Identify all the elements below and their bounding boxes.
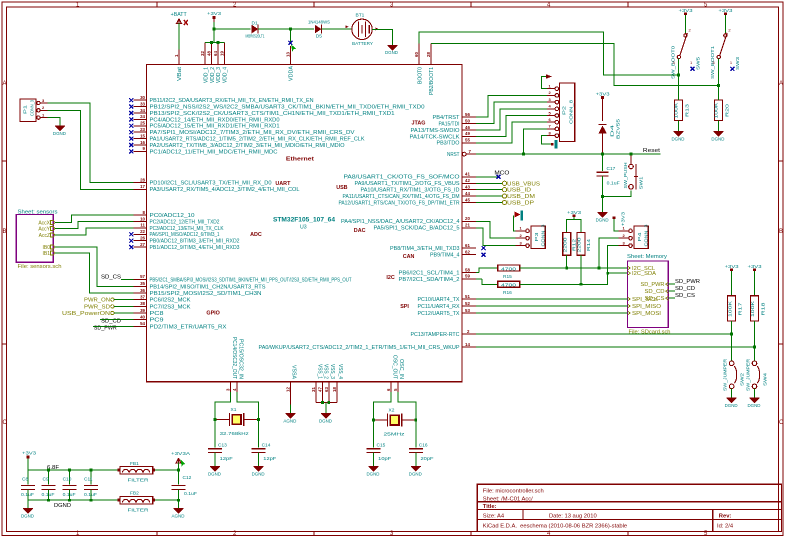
- svg-text:SD_PWR: SD_PWR: [641, 282, 665, 288]
- svg-text:PC1/ADC12_11/ETH_MII_MDC/ETH_R: PC1/ADC12_11/ETH_MII_MDC/ETH_RMII_MDC: [150, 149, 278, 155]
- svg-text:63: 63: [324, 387, 329, 392]
- svg-text:X1: X1: [231, 407, 237, 413]
- svg-text:PB9/TIM4_4: PB9/TIM4_4: [430, 253, 460, 259]
- no-connect X at MCO: [497, 175, 501, 179]
- battery BT1: [352, 19, 372, 39]
- top pin vertical labels: [177, 65, 435, 95]
- connector P1 CONN_3: [20, 99, 36, 122]
- svg-text:46: 46: [465, 125, 470, 130]
- wire+label SD_CS right: [668, 297, 675, 299]
- svg-text:51: 51: [465, 294, 470, 299]
- wire C16 to GND: [415, 453, 417, 467]
- svg-text:PA13/TMS-SWDIO: PA13/TMS-SWDIO: [411, 128, 460, 134]
- svg-text:R18: R18: [761, 302, 766, 316]
- node junction pin2/SCL: [598, 267, 601, 270]
- wire JTAG TRST: [476, 95, 547, 117]
- svg-text:VSS_3: VSS_3: [329, 364, 335, 379]
- capacitor C17 0.1uF: [597, 172, 609, 176]
- wire AccY to MCU PC2: [55, 222, 133, 229]
- svg-text:A: A: [779, 81, 783, 87]
- svg-text:PD10/I2C1_SCL/USART3_TX/ETH_MI: PD10/I2C1_SCL/USART3_TX/ETH_MII_RX_D0: [150, 181, 272, 187]
- svg-text:D4: D4: [610, 124, 615, 137]
- switch SW_BOOT1 SW3: [717, 33, 727, 59]
- svg-text:DGND: DGND: [21, 513, 35, 518]
- node junction at +3V3 / battery wire: [213, 28, 216, 31]
- svg-text:13: 13: [285, 52, 290, 57]
- svg-text:27: 27: [140, 242, 145, 247]
- svg-text:PC0/ADC12_10: PC0/ADC12_10: [150, 213, 195, 219]
- capacitor C9 0.1uF: [48, 470, 50, 485]
- resistor R20 100K: [714, 100, 722, 120]
- svg-text:OSC_IN: OSC_IN: [398, 359, 404, 379]
- svg-text:D5: D5: [316, 34, 322, 40]
- svg-text:VSS_2: VSS_2: [323, 364, 329, 379]
- svg-text:PWR_SD: PWR_SD: [84, 304, 110, 310]
- svg-text:VDD_3: VDD_3: [216, 67, 222, 83]
- svg-text:STM32F105_107_64: STM32F105_107_64: [273, 218, 336, 224]
- svg-text:BT1: BT1: [356, 13, 365, 19]
- svg-text:PC7/I2S3_MCK: PC7/I2S3_MCK: [150, 304, 191, 310]
- svg-text:Ethernet: Ethernet: [286, 157, 314, 163]
- right pin numbers: [465, 112, 472, 347]
- wire X2 right down to C16: [415, 420, 417, 447]
- svg-text:PA1/USART2_RTS/ADC12_1/TIM5_2/: PA1/USART2_RTS/ADC12_1/TIM5_2/TIM2_2/ETH…: [150, 137, 365, 143]
- wire USB_PowerON to MCU PC8: [114, 312, 133, 314]
- svg-text:62: 62: [465, 250, 470, 255]
- left pin stubs: [134, 100, 147, 326]
- resistor R13 100K: [675, 100, 683, 120]
- svg-text:C: C: [779, 420, 784, 426]
- svg-text:61: 61: [465, 243, 470, 248]
- svg-text:SD_CS: SD_CS: [101, 274, 122, 280]
- svg-text:GPIO: GPIO: [206, 310, 219, 316]
- svg-text:AGND: AGND: [172, 513, 186, 518]
- wire reset down to C17: [602, 154, 604, 171]
- node junction R14/SDA: [580, 283, 583, 286]
- svg-text:58: 58: [465, 267, 470, 272]
- no-connect X SW_BOOT1 unused throw: [730, 67, 734, 71]
- connector P2 CONN_8: [560, 83, 575, 142]
- svg-text:C11: C11: [84, 477, 93, 483]
- svg-text:ADC: ADC: [250, 232, 262, 238]
- sheet pin I2C_SDA: [628, 271, 631, 275]
- svg-text:30: 30: [140, 95, 145, 100]
- svg-text:X2: X2: [389, 408, 395, 414]
- svg-text:VDDA: VDDA: [289, 65, 295, 81]
- wire SW1 top to reset: [630, 154, 632, 164]
- wire P3 pin1: [514, 216, 516, 231]
- svg-text:DGND: DGND: [208, 471, 222, 476]
- push button SW1 SW_PUSH: [629, 164, 638, 189]
- svg-text:P3: P3: [534, 232, 540, 241]
- svg-text:C9: C9: [43, 477, 49, 483]
- ground symbol DGND (C14): [254, 467, 264, 471]
- svg-text:100K: 100K: [750, 300, 755, 317]
- svg-text:R15: R15: [503, 274, 512, 280]
- TITLE BLOCK: [477, 484, 781, 531]
- capacitor C11 0.1uF: [90, 470, 92, 485]
- svg-text:USB_VBUS: USB_VBUS: [507, 181, 541, 187]
- ferrite bead FB1 FILTER: [120, 466, 153, 474]
- svg-text:P1: P1: [23, 105, 29, 114]
- svg-text:SPI: SPI: [400, 304, 409, 310]
- svg-text:100K: 100K: [727, 300, 732, 317]
- wire C15 to GND: [373, 453, 375, 467]
- svg-text:BOOT0: BOOT0: [417, 67, 423, 84]
- svg-text:SD_CD: SD_CD: [645, 289, 665, 295]
- wire reset to P2 pin7: [524, 129, 547, 154]
- svg-text:25MHz: 25MHz: [384, 431, 406, 437]
- svg-text:PC12/UART5_TX: PC12/UART5_TX: [418, 311, 460, 317]
- svg-text:PA12/USART1_RTS/CAN_TX/OTG_FS_: PA12/USART1_RTS/CAN_TX/OTG_FS_DP/TIM1_ET…: [339, 200, 460, 206]
- svg-text:P2: P2: [562, 106, 568, 115]
- wire SCL run to sheet: [520, 267, 628, 269]
- svg-text:+3V3A: +3V3A: [171, 451, 191, 456]
- svg-text:60: 60: [414, 52, 419, 57]
- ERC marker (green arrow) at VDDA: [291, 44, 296, 52]
- wire P2 pin1 to power flag: [541, 77, 547, 89]
- sheet pin SPI_MISO: [628, 304, 631, 308]
- svg-text:DGND: DGND: [319, 418, 333, 423]
- marker teal bar at P3 pin1: [521, 211, 524, 221]
- svg-text:22: 22: [140, 229, 145, 234]
- ground symbol DGND (C16): [411, 467, 421, 471]
- no-connect X marks CAN pins: [482, 246, 486, 257]
- ground symbol DGND (R20): [713, 132, 723, 136]
- capacitor C10 0.1uF: [69, 470, 71, 485]
- svg-text:PA15/TDI: PA15/TDI: [439, 122, 460, 128]
- left pin numbers: [140, 95, 145, 326]
- node junctions X1: [214, 418, 217, 421]
- svg-text:PA7/SPI1_MOSI/ADC12_7/TIM3_2/E: PA7/SPI1_MOSI/ADC12_7/TIM3_2/ETH_MII_RX_…: [150, 130, 355, 136]
- wire PWR_ON to MCU PC6: [114, 299, 133, 301]
- svg-text:26: 26: [140, 236, 145, 241]
- svg-text:Id: 2/4: Id: 2/4: [717, 523, 734, 529]
- svg-text:BATTERY: BATTERY: [352, 41, 374, 47]
- svg-text:Rev:: Rev:: [719, 513, 732, 519]
- svg-text:PC14/OSC32_OUT: PC14/OSC32_OUT: [231, 337, 237, 379]
- svg-text:DAC: DAC: [354, 228, 366, 234]
- ground symbol DGND (SW2): [727, 398, 737, 402]
- svg-text:B: B: [779, 229, 783, 235]
- wire P2 pin8 open: [541, 136, 552, 145]
- bottom pin stubs: [231, 382, 398, 405]
- sheet pin SPI_SCK: [628, 297, 631, 301]
- svg-text:C16: C16: [419, 442, 428, 448]
- svg-text:PWR_ON: PWR_ON: [84, 298, 110, 304]
- svg-text:37: 37: [140, 294, 145, 299]
- svg-text:DGND: DGND: [596, 217, 610, 222]
- svg-text:C: C: [3, 420, 8, 426]
- resistor R12 2200: [563, 233, 571, 256]
- svg-text:2200: 2200: [562, 237, 567, 253]
- svg-text:PC11/UART4_RX: PC11/UART4_RX: [418, 304, 460, 310]
- svg-text:USB_DM: USB_DM: [507, 194, 535, 200]
- wire top rail: [28, 469, 120, 471]
- wire SD_PWR to MCU PD2: [93, 325, 134, 327]
- node junction R18/PA0: [753, 346, 756, 349]
- wires crystal X1 top: [215, 392, 231, 420]
- node junction R12/SCL: [565, 267, 568, 270]
- svg-text:48: 48: [207, 51, 212, 56]
- wire P1 pin1 to GND: [48, 118, 60, 126]
- hierarchical label USB_DM: [476, 195, 502, 197]
- node junction pin3/SDA: [606, 272, 609, 275]
- wire R14 to SDA: [580, 255, 582, 284]
- svg-text:DGND: DGND: [409, 471, 423, 476]
- svg-text:VSSA: VSSA: [291, 365, 297, 380]
- svg-text:59: 59: [465, 274, 470, 279]
- wire down to jumper SW4: [754, 347, 756, 361]
- svg-text:PA9/USART1_TX/TIM1_2/OTG_FS_VB: PA9/USART1_TX/TIM1_2/OTG_FS_VBUS: [355, 181, 460, 187]
- wire JTAG TMS: [476, 109, 547, 130]
- ground symbol AGND (C12): [174, 509, 184, 513]
- crystal X2 25MHz: [374, 414, 416, 427]
- svg-text:File: microcontroller.sch: File: microcontroller.sch: [483, 489, 544, 495]
- svg-text:Size: A4: Size: A4: [483, 513, 505, 519]
- wire FB2 to AGND rail: [155, 499, 178, 501]
- svg-text:PC2/ADC12_12/ETH_MII_TXD2: PC2/ADC12_12/ETH_MII_TXD2: [150, 219, 220, 225]
- svg-text:40: 40: [140, 315, 145, 320]
- no-connect X marks on left unused pins: [129, 98, 133, 249]
- svg-text:28: 28: [426, 52, 431, 57]
- svg-text:56: 56: [465, 112, 470, 117]
- wire JTAG TDO: [476, 122, 547, 143]
- node junction C12 bottom rail: [177, 499, 180, 502]
- op-amp U3 body: [147, 64, 462, 381]
- ground symbol DGND (C15): [369, 467, 379, 471]
- svg-text:SD_CD: SD_CD: [675, 286, 695, 292]
- ERC marker (green arrow) at +3V3A: [181, 460, 186, 468]
- svg-text:CONN_8: CONN_8: [569, 100, 575, 124]
- svg-text:4700: 4700: [501, 266, 516, 272]
- svg-text:C10: C10: [63, 477, 72, 483]
- svg-text:12: 12: [285, 387, 290, 392]
- wire bottom rail: [28, 499, 120, 501]
- svg-text:PC8: PC8: [150, 311, 164, 317]
- svg-text:VDD_1: VDD_1: [203, 67, 209, 83]
- svg-text:PB12/SPI2_NSS/I2S2_WS/I2C2_SMB: PB12/SPI2_NSS/I2S2_WS/I2C2_SMBA/USART3_C…: [150, 105, 425, 111]
- svg-text:1N4148WS: 1N4148WS: [308, 19, 330, 25]
- switch SW_BOOT0 SW5: [677, 33, 687, 59]
- svg-text:CAN: CAN: [403, 254, 415, 260]
- svg-text:18: 18: [332, 387, 337, 392]
- wire P1 pin3 to MCU PD10: [48, 103, 134, 183]
- svg-text:35: 35: [140, 281, 145, 286]
- wire JTAG TDI: [476, 102, 547, 124]
- wire C14 to GND: [258, 453, 260, 467]
- connector P3 CONN_3 (DAC): [531, 226, 545, 248]
- bottom pin vertical labels: [231, 337, 404, 380]
- svg-text:SW_JUMPER: SW_JUMPER: [745, 358, 750, 391]
- capacitor C13 12pF: [208, 449, 222, 453]
- svg-text:R14: R14: [586, 238, 591, 251]
- ground symbol DGND (C13): [210, 467, 220, 471]
- svg-text:24: 24: [140, 114, 145, 119]
- svg-text:JTAG: JTAG: [412, 121, 426, 127]
- wire down to jumper SW2: [731, 334, 733, 361]
- svg-text:32.768kHz: 32.768kHz: [220, 431, 250, 437]
- svg-text:PB1/ADC12_9/TIM3_4/ETH_MII_RXD: PB1/ADC12_9/TIM3_4/ETH_MII_RXD3: [150, 245, 240, 251]
- svg-text:19: 19: [219, 51, 224, 56]
- svg-text:PB15/SPI2_MOSI/I2S2_SD/TIM1_CH: PB15/SPI2_MOSI/I2S2_SD/TIM1_CH3N: [150, 291, 262, 297]
- svg-text:Reset: Reset: [643, 148, 661, 154]
- svg-text:PB0/ADC12_8/TIM3_3/ETH_MII_RXD: PB0/ADC12_8/TIM3_3/ETH_MII_RXD2: [150, 239, 240, 245]
- svg-text:C13: C13: [218, 442, 227, 448]
- svg-text:DGND: DGND: [252, 471, 266, 476]
- wire +3V3A down: [178, 463, 180, 485]
- bottom pin numbers: [226, 387, 398, 392]
- ground symbol DGND (R13): [674, 132, 684, 136]
- svg-text:+3V3: +3V3: [621, 211, 626, 226]
- svg-text:100K: 100K: [714, 101, 719, 118]
- svg-text:PA14/TCK-SWCLK: PA14/TCK-SWCLK: [410, 134, 460, 140]
- MCU U3 STM32F105_107_64: [129, 43, 485, 405]
- svg-text:SW_JUMPER: SW_JUMPER: [723, 358, 728, 391]
- svg-text:21: 21: [465, 223, 470, 228]
- svg-text:PB11/I2C2_SDA/USART3_RX/ETH_MI: PB11/I2C2_SDA/USART3_RX/ETH_MII_TX_EN/ET…: [150, 98, 314, 104]
- svg-text:PC6/I2S2_MCK: PC6/I2S2_MCK: [150, 298, 191, 304]
- node junctions top rail: [47, 469, 50, 472]
- svg-text:SW3: SW3: [735, 57, 741, 70]
- svg-text:CONN_3: CONN_3: [644, 224, 650, 246]
- svg-text:+3V3: +3V3: [748, 264, 763, 269]
- svg-text:PA11/USART1_CTS/CAN_RX/TIM1_4/: PA11/USART1_CTS/CAN_RX/TIM1_4/OTG_FS_DM: [343, 194, 460, 200]
- diode D5 1N4148WS: [315, 25, 322, 34]
- svg-text:0.1uF: 0.1uF: [184, 491, 197, 497]
- svg-text:53: 53: [465, 308, 470, 313]
- svg-text:C17: C17: [607, 166, 616, 172]
- svg-text:DGND: DGND: [53, 131, 67, 136]
- svg-text:PB5/I2C1_SMBA/SPI3_MOSI/I2S3_S: PB5/I2C1_SMBA/SPI3_MOSI/I2S3_SD/TIM1_BKI…: [150, 277, 353, 283]
- node junction reset/P2: [522, 153, 525, 156]
- svg-text:FB1: FB1: [130, 461, 139, 467]
- svg-text:57: 57: [140, 274, 145, 279]
- svg-text:SW_PUSH: SW_PUSH: [623, 163, 628, 189]
- svg-text:49: 49: [465, 131, 470, 136]
- wire SD_CD to MCU PC9: [100, 319, 134, 321]
- marker teal bar at P2 pin8: [555, 140, 558, 149]
- svg-text:2200: 2200: [577, 237, 582, 253]
- wire AccZ to MCU PC3: [55, 228, 133, 235]
- svg-text:AGND: AGND: [283, 418, 297, 423]
- svg-text:PA6/SPI1_MISO/ADC12_6/TIM3_1: PA6/SPI1_MISO/ADC12_6/TIM3_1: [150, 232, 220, 238]
- connector P4 CONN_3 (I2C): [634, 226, 648, 248]
- svg-text:USB_ID: USB_ID: [507, 188, 531, 194]
- svg-text:C15: C15: [377, 442, 386, 448]
- svg-text:OSC_OUT: OSC_OUT: [391, 355, 397, 379]
- svg-text:44: 44: [465, 191, 470, 196]
- svg-text:FB2: FB2: [130, 491, 139, 497]
- svg-text:15: 15: [140, 133, 145, 138]
- wire SPI_MOSI: [476, 312, 628, 314]
- svg-text:U3: U3: [300, 225, 307, 231]
- wire X1 left down to C13: [214, 420, 216, 448]
- wire R18 to PA0 net: [754, 321, 756, 347]
- svg-text:I2C: I2C: [386, 275, 394, 281]
- svg-text:PA5/SPI1_SCK/DAC_B/ADC12_5: PA5/SPI1_SCK/DAC_B/ADC12_5: [374, 226, 460, 232]
- top pin numbers: [174, 51, 431, 57]
- wire+label SD_CD right: [668, 290, 675, 292]
- wire P4 pin3 to SDA: [608, 246, 619, 274]
- wire PA8 MCO stub: [476, 176, 498, 178]
- wire PWR_SD to MCU PC7: [114, 305, 133, 307]
- svg-text:Sheet: Memory: Sheet: Memory: [627, 254, 667, 260]
- ground symbol DGND (P1): [55, 126, 65, 130]
- svg-text:Title:: Title:: [483, 504, 497, 510]
- svg-text:PB14/SPI2_MISO/TIM1_CH2N/USART: PB14/SPI2_MISO/TIM1_CH2N/USART3_RTS: [150, 284, 266, 290]
- no-connect X at VDDA wire end: [288, 41, 292, 45]
- svg-text:+BATT: +BATT: [171, 12, 188, 18]
- resistor R14 2200: [577, 233, 585, 256]
- svg-text:B: B: [3, 229, 7, 235]
- svg-text:PB2/BOOT1: PB2/BOOT1: [429, 67, 435, 95]
- svg-text:PC13/TAMPER-RTC: PC13/TAMPER-RTC: [411, 332, 460, 338]
- wire R12 to SCL: [566, 255, 568, 268]
- wire D5 to battery BT1: [321, 28, 352, 30]
- svg-text:34: 34: [140, 108, 145, 113]
- ground symbol DGND (SW4): [750, 398, 760, 402]
- wire R20 to GND: [717, 120, 719, 131]
- svg-text:+3V3: +3V3: [207, 11, 222, 16]
- svg-text:SW5: SW5: [695, 57, 701, 70]
- svg-text:+3V3: +3V3: [22, 451, 37, 456]
- capacitor C12 0.1uF: [172, 486, 186, 490]
- node junction boot1/resistor: [717, 84, 720, 87]
- svg-text:MBR0520LT1: MBR0520LT1: [246, 33, 265, 39]
- node junction boot0/resistor: [677, 74, 680, 77]
- svg-text:SD_PWR: SD_PWR: [675, 279, 700, 285]
- svg-text:28: 28: [140, 177, 145, 182]
- wire VDD bus: [205, 42, 224, 44]
- svg-text:D1: D1: [252, 20, 258, 26]
- svg-text:+3V3: +3V3: [718, 8, 733, 13]
- svg-text:IB1: IB1: [42, 251, 50, 257]
- ferrite bead FB2 FILTER: [120, 496, 153, 504]
- svg-text:PA4/SPI1_NSS/DAC_A/USART2_CK/A: PA4/SPI1_NSS/DAC_A/USART2_CK/ADC12_4: [341, 219, 460, 225]
- svg-text:CONN_3: CONN_3: [30, 100, 36, 116]
- wire SD_CS to MCU PB5: [121, 278, 134, 280]
- svg-text:File: SDcard.sch: File: SDcard.sch: [629, 330, 671, 336]
- svg-text:PC10/UART4_TX: PC10/UART4_TX: [418, 297, 460, 303]
- svg-text:PB13/SPI2_SCK/I2S2_CK/USART3_C: PB13/SPI2_SCK/I2S2_CK/USART3_CTS/TIM1_CH…: [150, 111, 395, 117]
- hierarchical label USB_VBUS: [476, 182, 502, 184]
- svg-text:38: 38: [140, 301, 145, 306]
- svg-text:12pF: 12pF: [220, 456, 233, 462]
- wire VDDA branch down: [289, 29, 291, 43]
- svg-text:+3V3: +3V3: [567, 210, 582, 215]
- svg-text:SW2: SW2: [740, 372, 745, 386]
- wire IB1 to MCU PB15: [55, 253, 133, 293]
- svg-text:VDD_4: VDD_4: [223, 67, 229, 83]
- svg-text:FILTER: FILTER: [128, 478, 150, 484]
- wire SDA run: [520, 273, 628, 284]
- svg-text:Date: 13 aug 2010: Date: 13 aug 2010: [549, 513, 597, 519]
- svg-text:PA2/USART2_TX/TIM5_3/ADC12_2/T: PA2/USART2_TX/TIM5_3/ADC12_2/TIM2_3/ETH_…: [150, 143, 345, 149]
- svg-text:33: 33: [140, 101, 145, 106]
- capacitor C15 10pF: [367, 449, 381, 453]
- wire PA4 to P3 pin2: [476, 221, 516, 238]
- wire C17 to GND: [602, 176, 604, 212]
- svg-text:PB7/I2C1_SDA/TIM4_2: PB7/I2C1_SDA/TIM4_2: [399, 277, 460, 283]
- svg-text:AccX: AccX: [38, 220, 50, 226]
- svg-text:R17: R17: [738, 302, 743, 316]
- ground symbol DGND (battery): [387, 46, 397, 50]
- svg-text:36: 36: [140, 288, 145, 293]
- svg-text:KiCad E.D.A. eeschema (2010-0: KiCad E.D.A. eeschema (2010-08-06 BZR 23…: [483, 523, 627, 529]
- svg-text:+3V3: +3V3: [679, 8, 694, 13]
- ground symbol AGND (VSSA): [289, 405, 291, 414]
